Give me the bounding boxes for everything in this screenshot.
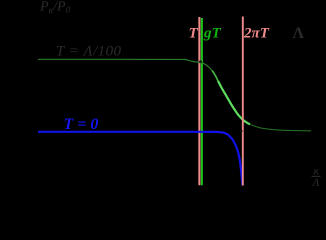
- vertical line gT (green): [201, 18, 203, 185]
- svg-text:κ: κ: [314, 166, 320, 178]
- svg-text:gT: gT: [203, 26, 222, 42]
- curve T=Lambda/100 tail segment (dark green): [250, 124, 311, 131]
- node: blue curve crossing green tail (dark dot): [240, 130, 243, 133]
- svg-text:2πT: 2πT: [243, 26, 270, 42]
- x-axis label kappa/Lambda fraction: [312, 166, 321, 189]
- svg-text:T = Λ/100: T = Λ/100: [56, 43, 122, 59]
- svg-text:Λ: Λ: [293, 25, 305, 42]
- vertical line T (pink): [198, 17, 200, 185]
- svg-text:T = 0: T = 0: [64, 116, 99, 133]
- curve T=Lambda/100 steep segment (bright green): [218, 81, 250, 124]
- curve T=Lambda/100 flat left segment (dark green): [38, 59, 212, 70]
- curve T=Lambda/100 knee transition segment (medium green): [212, 71, 218, 81]
- svg-text:T: T: [189, 26, 199, 42]
- vertical line 2piT (pink): [242, 17, 244, 186]
- curve T=0 (blue): [38, 132, 242, 186]
- svg-text:Λ: Λ: [312, 177, 320, 189]
- node: green curve crossing T line (dark dot): [199, 60, 202, 63]
